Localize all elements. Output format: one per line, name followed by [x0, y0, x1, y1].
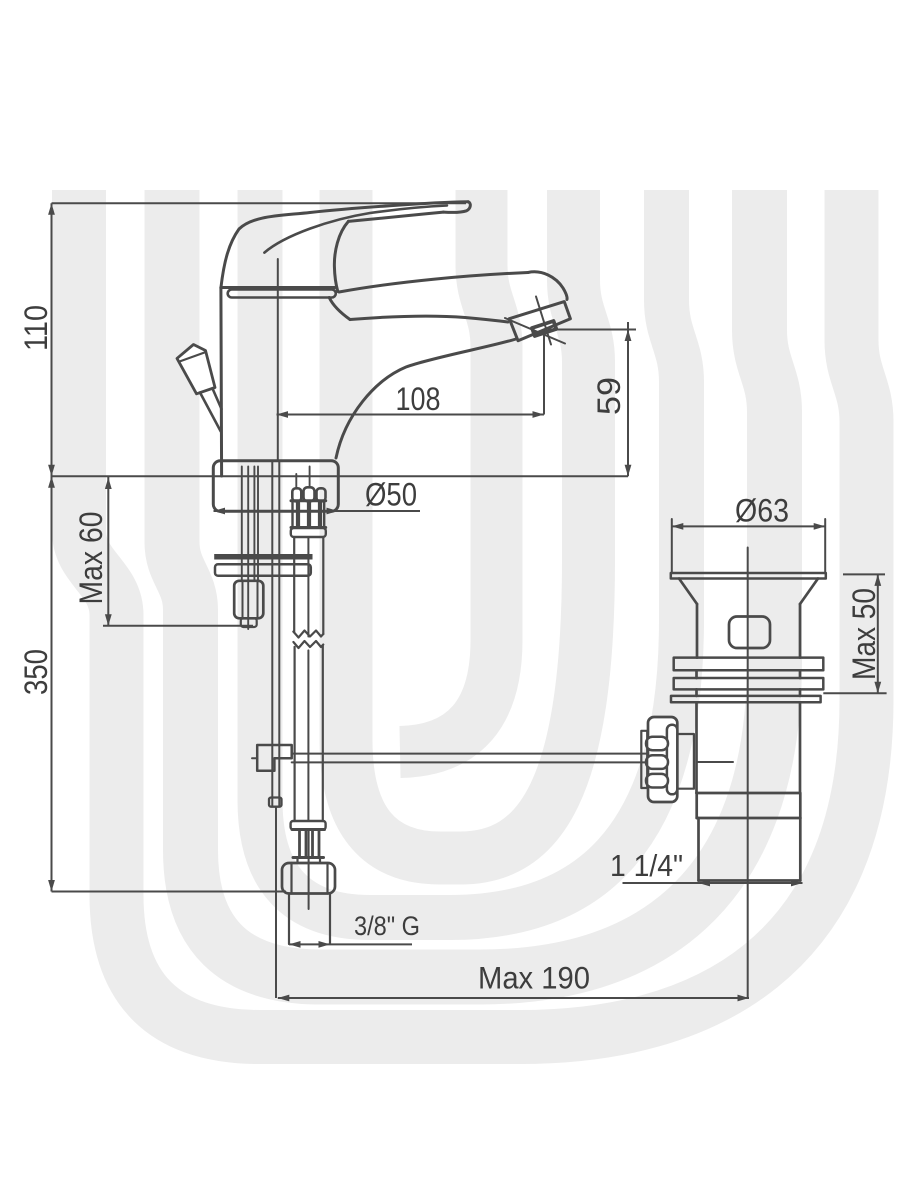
svg-text:1 1/4": 1 1/4": [610, 848, 683, 883]
hose ribbed section 2: [292, 828, 325, 831]
drain centerline: [747, 548, 749, 999]
hose tube upper: [293, 537, 295, 632]
dimension line O50: [214, 510, 421, 512]
lever rear face curve: [334, 221, 348, 291]
flange 3: [671, 696, 821, 702]
dimension lines: [52, 203, 887, 998]
watermark band ring 1 (outer): [79, 190, 867, 1037]
watermark band ring 3: [260, 190, 682, 918]
arrow 1 1/4 left: [699, 880, 711, 887]
hose inner line in base: [295, 474, 297, 488]
dimension line Max 50 vertical: [877, 574, 879, 693]
arrow 3/8 left: [289, 941, 301, 948]
extension line Max 50 bottom: [823, 692, 886, 694]
drain flange taper right: [800, 579, 818, 605]
joint ring: [228, 290, 336, 298]
svg-text:3/8" G: 3/8" G: [354, 911, 420, 941]
lever tip hook: [443, 202, 470, 213]
watermark band ring 2: [172, 190, 775, 977]
svg-text:Max 190: Max 190: [478, 960, 590, 996]
knurled wheel: [648, 717, 677, 802]
arrow Max50 top: [874, 574, 881, 586]
arrow 3/8 right: [319, 941, 331, 948]
pipe stub: [288, 894, 290, 945]
svg-text:Ø63: Ø63: [735, 493, 789, 529]
hose crenellated cap: [292, 488, 301, 501]
washer bar: [214, 554, 312, 560]
hose break mark: [293, 631, 323, 638]
arrow Max60 bottom: [105, 614, 112, 626]
arrow 108 left: [277, 411, 289, 418]
dimension line 3/8 G: [289, 943, 412, 945]
bracket plates: [641, 731, 647, 788]
drain flange taper left: [679, 579, 697, 605]
arrow 108 right: [533, 411, 545, 418]
base internals: studs: [241, 467, 243, 581]
pop-up rod: [271, 461, 273, 806]
arrow 110 top: [48, 203, 55, 215]
extension line Max 50 top: [843, 573, 885, 575]
arrow Max50 bottom: [874, 682, 881, 694]
arrow Max190 right: [738, 995, 750, 1002]
arrow O50 right: [327, 508, 339, 515]
spout big underside curve: [336, 339, 516, 458]
hose collar: [291, 528, 326, 537]
arrowheads: [48, 203, 881, 1001]
rod clamp block: [257, 745, 292, 771]
arrow 350 bottom: [48, 880, 55, 892]
aerator: [509, 302, 570, 341]
dimension line 110 / 350 vertical: [51, 203, 53, 891]
arrow 350 top: [48, 476, 55, 488]
dimension line 108: [277, 414, 545, 416]
spout nose: [528, 272, 567, 300]
dimension line 59 vertical: [627, 322, 629, 476]
aerator cross diagonal 2: [536, 297, 551, 345]
svg-text:110: 110: [18, 305, 54, 351]
extension line top (spout height datum): [52, 202, 467, 204]
dimension line 1 1/4 inch: [623, 882, 803, 884]
arrow O50 left: [214, 508, 226, 515]
3/8 nut: [282, 863, 335, 894]
extension line 108 right: [543, 331, 545, 415]
spout underside line: [350, 316, 508, 322]
stud nut: [234, 581, 263, 619]
watermark band ring 4: [346, 190, 589, 858]
drain body mid: [695, 702, 698, 793]
lever accent line: [264, 206, 447, 253]
faucet dome cap: [221, 286, 335, 289]
lever underside edge: [348, 212, 443, 221]
drain tail pipe: [697, 818, 700, 881]
arrow 59 top: [625, 330, 632, 342]
linkage rod: [292, 753, 647, 755]
extension line counter top level: [52, 475, 629, 477]
faucet centerline: [277, 259, 279, 461]
faucet body left edge: [219, 288, 223, 477]
faucet body right / spout underside: [329, 298, 350, 320]
arrow 110 bottom: [48, 465, 55, 477]
arrow 59 bottom: [625, 465, 632, 477]
rod end cap: [269, 798, 282, 807]
svg-text:Max 60: Max 60: [73, 512, 109, 605]
flange 1: [674, 658, 824, 671]
square hole: [729, 617, 770, 649]
extension line 350 bottom: [52, 891, 287, 893]
svg-text:59: 59: [591, 377, 627, 415]
watermark band ring 5 (inner): [400, 190, 497, 752]
drain top flange: [671, 573, 826, 579]
hose tube lower: [294, 647, 296, 821]
arrow 1 1/4 right: [791, 880, 803, 887]
side knob: [177, 345, 215, 394]
aerator cross diagonal 1: [505, 318, 565, 344]
svg-text:Max 50: Max 50: [846, 588, 882, 680]
arrow O63 right: [814, 523, 826, 530]
arrow Max190 left: [278, 995, 290, 1002]
drain: extension verticals: [671, 519, 673, 573]
dimension line Max 190: [278, 997, 749, 999]
mounting plate: [215, 564, 311, 576]
svg-text:108: 108: [396, 381, 441, 417]
extension line Max 190 left: [275, 807, 277, 998]
extension line 59 top: [548, 329, 636, 331]
flange 2: [674, 678, 824, 689]
extension line Max 60 bottom: [103, 625, 253, 627]
arrow Max60 top: [105, 478, 112, 490]
spout top line: [339, 273, 528, 293]
svg-text:Ø50: Ø50: [365, 477, 417, 513]
hose axis: [308, 830, 310, 910]
X mark at aerator: [532, 321, 556, 336]
clamp screw tip: [252, 757, 257, 759]
arrow O63 left: [672, 523, 684, 530]
svg-text:350: 350: [18, 649, 54, 695]
base: [213, 461, 338, 512]
drain body upper: [696, 604, 699, 658]
hose ferrule: [291, 821, 326, 830]
drain inset section: [695, 793, 698, 818]
dimension line Max 60 vertical: [107, 477, 109, 626]
watermark: [79, 190, 867, 1037]
faucet lever handle: [221, 202, 468, 288]
hose ribbed block: [291, 499, 326, 502]
dimension line O63: [672, 525, 825, 527]
